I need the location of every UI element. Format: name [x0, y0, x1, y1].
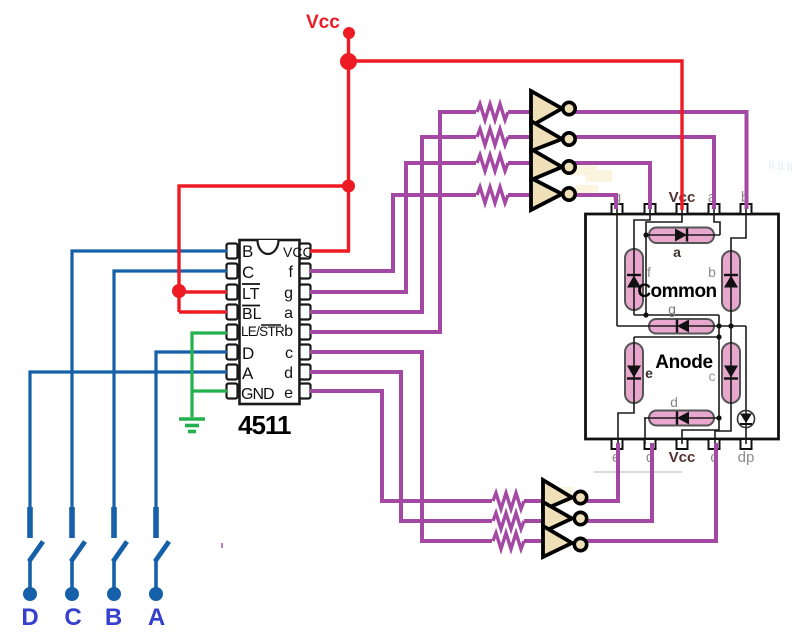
resistor R7 — [493, 533, 524, 549]
internal wire: segment e feed to pin e — [618, 337, 634, 444]
display pin bottom d — [645, 439, 656, 449]
svg-text:Common: Common — [637, 281, 716, 302]
junction dot b-bottom — [728, 323, 733, 328]
resistor R4 — [477, 187, 508, 203]
wire Vcc branch left — [179, 186, 349, 312]
IC overline BL — [242, 305, 260, 307]
internal wire: segment a anode drop — [645, 235, 647, 315]
wire U3c out to pin c — [584, 443, 716, 541]
watermark remnant patch 3 — [586, 170, 612, 182]
wire Vcc vertical — [347, 33, 350, 251]
internal wire: segment d to pin d — [644, 418, 646, 444]
internal wire: right bus vertical — [718, 315, 720, 418]
svg-text:d: d — [284, 365, 293, 382]
diode in segment e — [627, 366, 641, 379]
switch SW B fixed contact — [111, 507, 117, 538]
segment g capsule — [649, 319, 714, 334]
IC overline LT — [242, 283, 260, 285]
display pin top g — [612, 204, 623, 214]
svg-text:b: b — [708, 264, 716, 280]
wire b feed — [310, 112, 476, 332]
svg-text:A: A — [242, 364, 254, 383]
diode in segment g — [677, 320, 689, 333]
svg-text:a: a — [284, 305, 293, 322]
switch SW D lever — [29, 542, 43, 562]
switch SW B lever — [113, 542, 127, 562]
wire R4 to U2d — [508, 193, 531, 197]
watermark remnant patch 2 — [576, 185, 598, 196]
dp diode circle — [738, 411, 755, 428]
segment a capsule — [649, 228, 714, 244]
internal wire: pin a jog — [714, 209, 720, 235]
IC pin a — [300, 305, 311, 320]
diode in segment f — [627, 275, 641, 288]
internal wire: common bus lower — [634, 336, 719, 338]
internal wire: bottom Vcc pin feed — [682, 418, 719, 444]
svg-text:Vcc: Vcc — [669, 449, 696, 466]
stray purple tick — [221, 543, 223, 548]
wire a feed — [310, 137, 476, 312]
IC pin g — [300, 285, 311, 300]
wire U3b out to pin d — [584, 443, 652, 521]
IC pin 5 LE/STR — [227, 325, 238, 340]
svg-text:Vcc: Vcc — [306, 12, 340, 33]
svg-text:C: C — [64, 604, 81, 631]
inverter U2b — [531, 121, 575, 151]
display pin bottom dp — [741, 439, 752, 449]
IC pin 3 LT — [227, 285, 238, 300]
svg-text:e: e — [284, 385, 293, 402]
ground symbol — [179, 419, 205, 432]
wire to LT pin — [179, 290, 227, 293]
diode in segment a — [675, 229, 687, 242]
wire U2c out to pin f — [573, 163, 650, 209]
wire GND green — [192, 389, 227, 392]
watermark remnant patch 1 — [573, 164, 597, 175]
inverter U2c — [531, 149, 575, 180]
wire R1 to U2a — [508, 110, 531, 114]
wire R3 to U2c — [508, 161, 531, 165]
IC pin 16 VCC — [300, 244, 311, 259]
resistor R3 — [477, 155, 508, 171]
svg-text:B: B — [242, 242, 253, 261]
Vcc terminal dot — [343, 27, 355, 39]
IC pin f — [300, 264, 311, 279]
IC pin c — [300, 345, 311, 360]
svg-text:f: f — [647, 264, 651, 280]
internal wire: pin b feed through segment b — [731, 209, 746, 326]
svg-text:B: B — [105, 604, 122, 631]
IC pin d — [300, 365, 311, 380]
IC pin 4 BL — [227, 305, 238, 320]
wire to BL pin — [179, 310, 227, 313]
wire R2 to U2b — [508, 135, 531, 139]
svg-text:LT: LT — [242, 286, 260, 303]
internal wire: pin f feed through segment f — [634, 209, 650, 315]
wire LE/STR green — [192, 333, 227, 417]
junction dot Vcc branch — [342, 180, 355, 193]
switch SW A terminal dot — [149, 587, 163, 601]
internal wire: top Vcc pin feed — [646, 209, 682, 236]
wire U2b out to pin a — [573, 137, 714, 209]
wire C input — [114, 271, 227, 538]
IC overline STR — [261, 324, 281, 326]
internal wire: segment a line — [646, 234, 720, 236]
IC pin 7 A — [227, 365, 238, 380]
svg-text:f: f — [289, 264, 294, 281]
segment c capsule — [722, 343, 740, 403]
wire e feed — [310, 391, 492, 501]
svg-text:VCC: VCC — [283, 244, 313, 260]
resistor R5 — [493, 493, 524, 509]
svg-text:A: A — [148, 604, 165, 631]
segment d capsule — [649, 411, 714, 426]
resistor R6 — [493, 513, 524, 529]
wire g feed — [310, 163, 476, 292]
svg-text:g: g — [668, 301, 676, 317]
junction dot bus lower right — [716, 334, 721, 339]
wire U3a out to pin e — [584, 443, 618, 501]
IC notch — [258, 240, 279, 254]
watermark remnant patch 4 — [560, 487, 573, 503]
switch SW D stub — [28, 561, 32, 589]
faint erased line under display — [594, 471, 682, 473]
switch SW D terminal dot — [23, 587, 37, 601]
display pin top b — [741, 204, 752, 214]
switch SW C fixed contact — [69, 507, 75, 538]
resistor R1 — [477, 104, 508, 120]
switch SW A lever — [155, 542, 169, 562]
7-segment display U3 body — [586, 214, 779, 439]
svg-text:Anode: Anode — [655, 352, 713, 373]
internal wire: dp feed — [745, 326, 747, 444]
display pin bottom Vcc — [677, 439, 688, 449]
junction dot LT — [172, 284, 186, 298]
wire B input — [72, 251, 227, 538]
junction dot a-left — [643, 232, 648, 237]
svg-text:g: g — [284, 285, 293, 302]
wire R6 to U3b — [524, 519, 543, 523]
inverter U2a — [531, 91, 575, 126]
svg-text:GND: GND — [241, 386, 274, 403]
wire R5 to U3a — [524, 499, 543, 503]
display pin top Vcc — [677, 204, 688, 214]
svg-text:b: b — [284, 323, 293, 340]
switch SW D fixed contact — [27, 507, 33, 538]
resistor R2 — [477, 129, 508, 145]
svg-text:c: c — [285, 345, 293, 362]
svg-text:D: D — [242, 344, 254, 363]
segment b capsule — [722, 251, 740, 311]
internal wire: segment d line — [644, 417, 719, 419]
inverter U3c — [543, 526, 587, 557]
wire d feed — [310, 372, 492, 521]
segment e capsule — [625, 343, 643, 403]
display pin top a — [709, 204, 720, 214]
switch SW C stub — [70, 561, 74, 589]
switch SW C lever — [71, 542, 85, 562]
svg-text:C: C — [242, 263, 254, 282]
switch SW A fixed contact — [153, 507, 159, 538]
junction dot d-line right — [716, 415, 721, 420]
junction dot bus upper left — [643, 312, 648, 317]
svg-text:4511: 4511 — [238, 410, 291, 440]
diode in segment c — [724, 366, 738, 379]
internal wire: segment g line — [617, 325, 746, 327]
inverter U2d — [531, 178, 575, 210]
wire VCC pin to rail — [310, 249, 350, 252]
diode in segment d — [677, 412, 689, 425]
wire U2d out to pin g — [573, 195, 616, 209]
segment f capsule — [625, 249, 643, 310]
wire R7 to U3c — [524, 539, 543, 543]
display pin bottom c — [709, 439, 720, 449]
internal wire: common bus upper — [634, 314, 719, 316]
svg-text:a: a — [673, 244, 681, 260]
diode in segment b — [724, 275, 738, 288]
IC pin 2 C — [227, 264, 238, 279]
IC pin 6 D — [227, 345, 238, 360]
display pin bottom e — [612, 439, 623, 449]
switch SW B terminal dot — [107, 587, 121, 601]
wire U2a out to pin b — [573, 112, 747, 209]
wire D input — [156, 352, 227, 538]
switch SW C terminal dot — [65, 587, 79, 601]
svg-text:BL: BL — [242, 306, 262, 323]
svg-text:dp: dp — [738, 449, 755, 466]
IC pin e — [300, 384, 311, 399]
inverter U3a — [543, 480, 587, 510]
IC pin 1 B — [227, 244, 238, 259]
junction dot g-line x719 — [716, 323, 721, 328]
svg-text:d: d — [670, 394, 678, 410]
inverter U3b — [543, 502, 587, 532]
IC pin b — [300, 325, 311, 340]
switch SW A stub — [154, 561, 158, 589]
display pin top f — [645, 204, 656, 214]
internal wire: segment c feed to pin c — [715, 326, 731, 444]
svg-text:D: D — [21, 604, 38, 631]
svg-text:LE/STR: LE/STR — [241, 324, 285, 339]
IC pin 8 GND — [227, 384, 238, 399]
svg-text:e: e — [645, 365, 653, 381]
wire c feed — [310, 352, 492, 541]
switch SW B stub — [112, 561, 116, 589]
wire Vcc to display — [349, 61, 683, 210]
wire A input — [30, 372, 227, 538]
wire f feed — [310, 195, 476, 271]
junction dot Vcc rail — [340, 53, 357, 70]
internal wire: pin g to segment g line — [616, 209, 618, 326]
IC U1 4511 body — [240, 240, 300, 404]
